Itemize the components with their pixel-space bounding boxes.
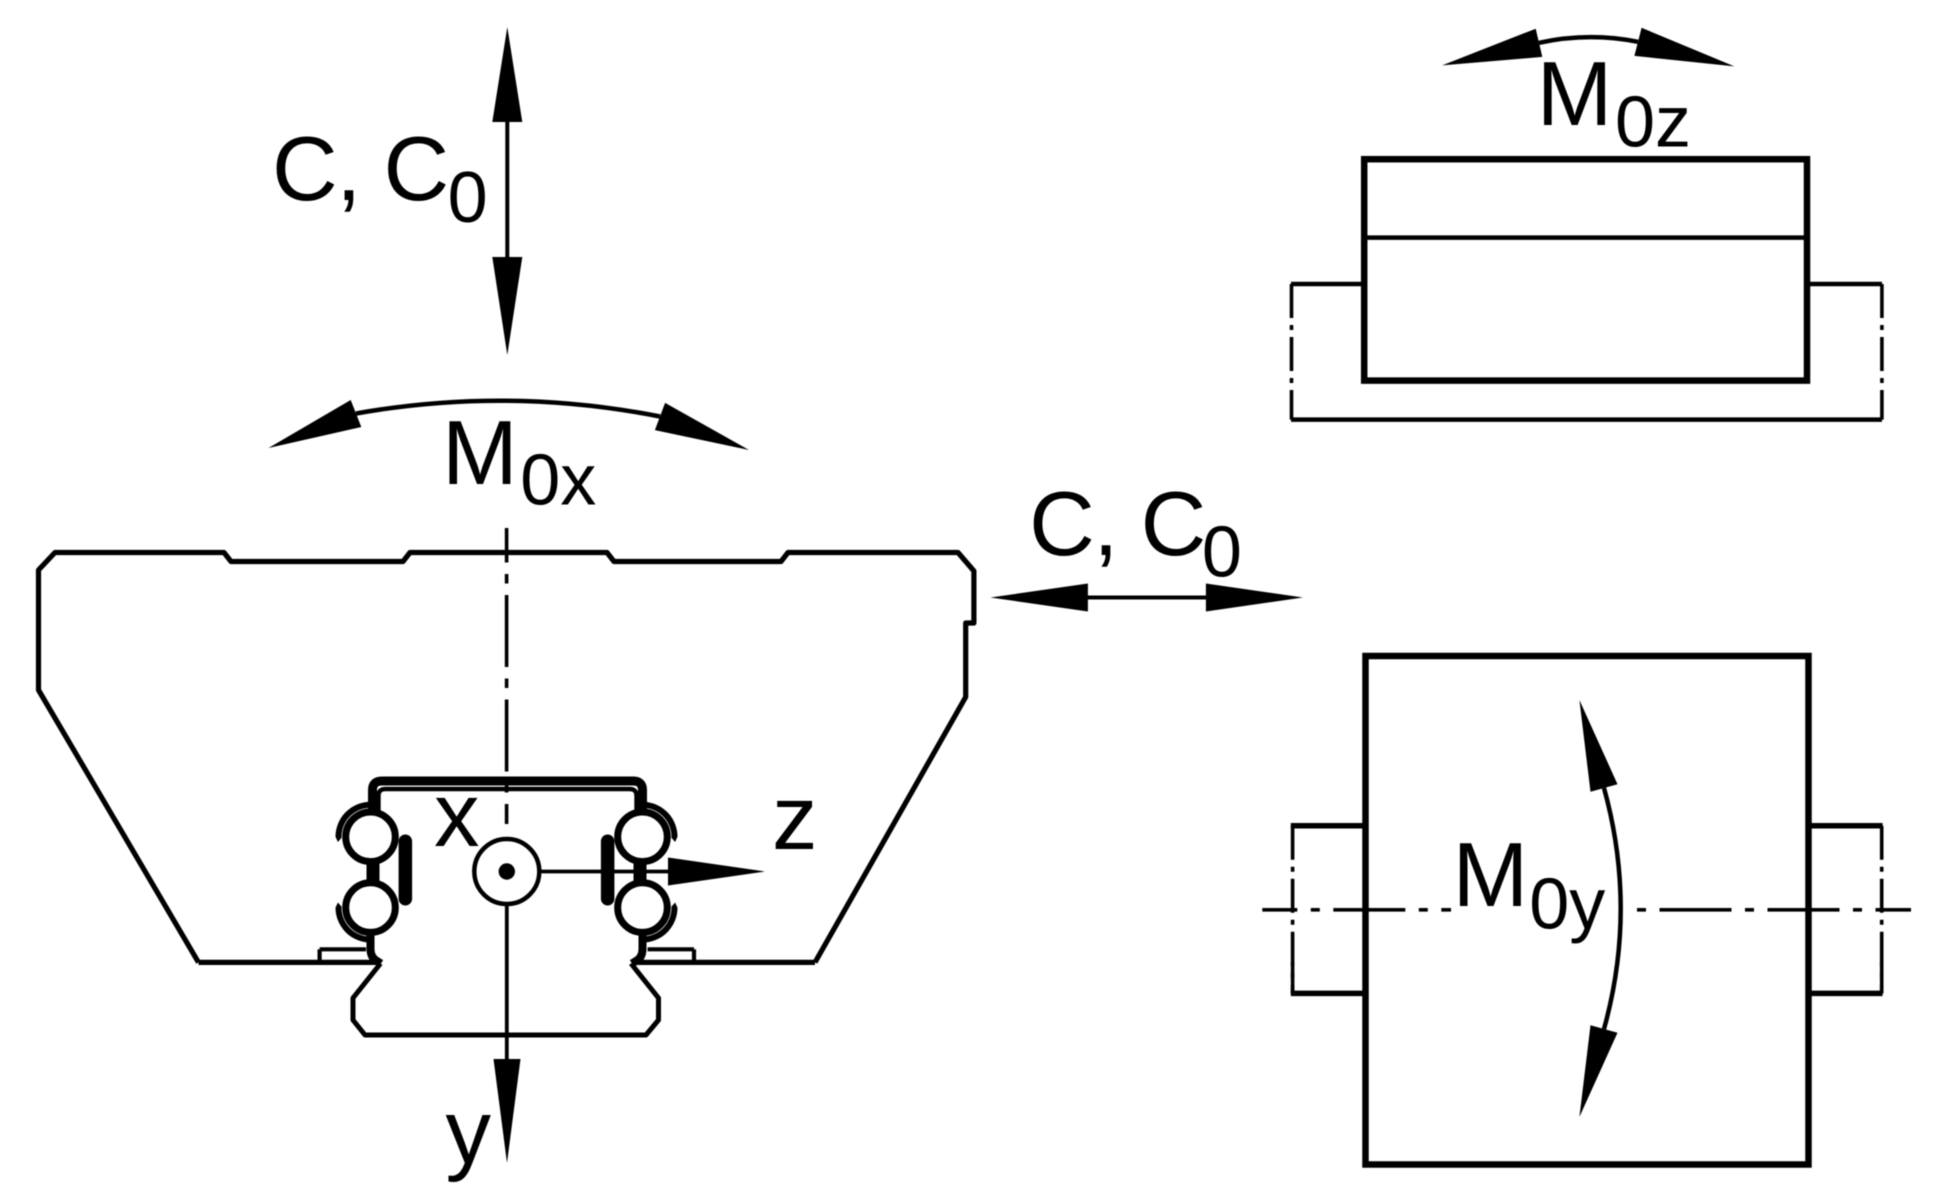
rail ridge left (between balls) <box>399 835 413 906</box>
rail stub right bottom edge <box>1807 991 1883 997</box>
rail ridge right (between balls) <box>601 835 615 906</box>
rail left end centerline <box>1290 284 1294 420</box>
C,C0 vertical arrowhead up <box>492 27 522 122</box>
carriage bottom edge left <box>199 960 377 965</box>
carriage lip riser left <box>318 949 322 962</box>
rail stub left end centerline <box>1291 826 1295 994</box>
coordinate origin circle <box>474 839 539 904</box>
C,C0 horizontal arrowhead right <box>1206 584 1303 612</box>
rail head inner line (thin) <box>379 789 637 812</box>
ball pinch neck right <box>634 860 647 886</box>
rail lower stub + elbow left <box>371 934 382 964</box>
svg-text:0: 0 <box>1202 513 1242 593</box>
rail top edge (top view) <box>1291 282 1882 287</box>
M0z arrowhead left <box>1442 29 1542 66</box>
carriage square (side view) <box>1366 656 1809 1165</box>
raceway bracket bottom-left <box>336 902 369 942</box>
svg-text:M: M <box>442 403 518 504</box>
rail lower stub + elbow right <box>632 934 643 964</box>
rail head outer contour (thick) <box>373 781 643 811</box>
rail stub left top edge <box>1291 823 1366 829</box>
svg-text:z: z <box>772 768 818 869</box>
svg-text:0x: 0x <box>520 441 596 521</box>
M0x arrowhead left <box>269 400 362 448</box>
M0z arc arrow <box>1539 37 1638 43</box>
svg-text:0y: 0y <box>1529 865 1605 945</box>
C,C0 vertical arrowhead down <box>492 257 522 355</box>
svg-text:0z: 0z <box>1615 82 1691 162</box>
rail stub left bottom edge <box>1291 991 1366 997</box>
y axis arrowhead <box>494 1059 521 1163</box>
centerline vertical (dash-dot) <box>505 528 509 824</box>
svg-text:M: M <box>1537 44 1613 145</box>
carriage bottom edge right <box>638 960 815 965</box>
carriage lip riser right <box>692 949 696 962</box>
rail neck flare + foot <box>353 964 659 1036</box>
M0x arc arrow <box>356 401 660 417</box>
M0y arrowhead bottom <box>1579 1025 1617 1117</box>
z axis line <box>542 870 671 874</box>
z axis arrowhead <box>668 858 765 886</box>
rail bottom edge (top view) <box>1291 417 1882 422</box>
coordinate origin dot <box>499 863 515 879</box>
horizontal centerline segment B <box>1637 908 1911 912</box>
carriage outline <box>39 553 974 963</box>
C,C0 horizontal arrowhead left <box>990 584 1088 612</box>
svg-text:y: y <box>446 1082 492 1183</box>
ball pinch neck left <box>367 860 380 886</box>
raceway bracket bottom-right <box>645 902 678 942</box>
M0x arrowhead right <box>655 403 749 450</box>
carriage lip ledge right <box>648 947 694 951</box>
M0y bow arc <box>1604 788 1621 1029</box>
svg-text:C, C: C, C <box>272 119 448 220</box>
svg-text:C, C: C, C <box>1029 474 1205 575</box>
rail right end centerline <box>1880 284 1884 420</box>
carriage rect (top view) <box>1364 159 1807 380</box>
ball top-right <box>618 812 668 862</box>
ball top-left <box>346 812 396 862</box>
C,C0 vertical arrow line <box>505 118 509 260</box>
M0z arrowhead right <box>1634 28 1734 67</box>
rail stub right top edge <box>1807 823 1883 829</box>
ball bottom-left <box>346 883 396 933</box>
M0y arrowhead top <box>1579 700 1617 792</box>
y axis line <box>505 906 509 1061</box>
carriage seam line (top view) <box>1364 235 1807 240</box>
svg-text:M: M <box>1453 825 1529 926</box>
svg-text:0: 0 <box>448 158 488 238</box>
svg-text:x: x <box>434 765 480 866</box>
horizontal centerline segment A <box>1262 908 1451 912</box>
C,C0 horizontal arrow line <box>1085 596 1208 600</box>
raceway bracket top-left <box>336 802 369 842</box>
ball bottom-right <box>618 883 668 933</box>
carriage lip ledge left <box>320 947 366 951</box>
rail stub right end centerline <box>1880 826 1884 994</box>
raceway bracket top-right <box>645 802 678 842</box>
